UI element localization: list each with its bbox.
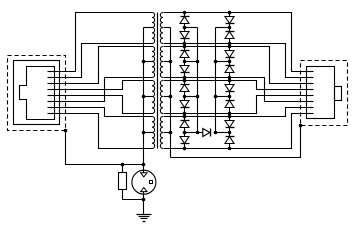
left jack pin 8 contact xyxy=(48,113,55,115)
diode VD9 (column 2, cathode down) xyxy=(225,13,235,28)
arrester gas-filled square mark xyxy=(150,181,153,184)
wire left pin 3 to primary terminal y=46.4 xyxy=(55,47,153,84)
column 1 mids bus wire xyxy=(197,28,199,133)
col1 bus junction dot xyxy=(196,131,200,135)
column 1 inter-pair link xyxy=(184,114,186,117)
column 2 junction dot at rail y=113.6 xyxy=(228,112,232,116)
column 2 junction dot at rail y=77.2 xyxy=(228,76,232,80)
wire secondary terminal y=46.4 to right pin 3 xyxy=(164,47,314,84)
arrester F1 top lead xyxy=(143,165,145,173)
column 1 junction dot at rail y=116.7 xyxy=(183,115,187,119)
T1 secondary winding 4 upper half xyxy=(160,117,163,133)
column 2 junction dot at rail y=116.7 xyxy=(228,115,232,119)
T1 primary winding 4 center tap stub xyxy=(144,132,153,134)
left jack pin 2 contact xyxy=(48,77,55,79)
column 1 junction dot at rail y=80.3 xyxy=(183,79,187,83)
secondary tap bus junction dot xyxy=(169,60,173,64)
column 2 pair 1 midpoint dot xyxy=(228,26,232,30)
T1 primary winding 4 upper half xyxy=(152,117,155,133)
right jack pin 6 contact xyxy=(307,101,314,103)
T1 secondary winding 1 upper half xyxy=(160,13,163,28)
right jack pin 3 contact xyxy=(307,83,314,85)
left jack pin 6 contact xyxy=(48,101,55,103)
column 2 pair 3 midpoint dot xyxy=(228,95,232,99)
diode VD12 (column 2, cathode up) xyxy=(225,62,235,78)
secondary center-tap bus wire xyxy=(170,28,172,158)
left connector body outer rectangle xyxy=(14,61,60,125)
left jack pin 3 contact xyxy=(48,83,55,85)
diode VD8 (column 1, cathode down) xyxy=(180,133,190,149)
left jack pin 5 contact xyxy=(48,95,55,97)
T1 primary winding 2 center tap stub xyxy=(144,61,153,63)
column 1 junction dot at rail y=148.6 xyxy=(183,147,187,151)
wire secondary terminal y=77.2 to right pin 6 xyxy=(164,78,314,102)
secondary tap bus junction dot xyxy=(169,95,173,99)
T1 primary winding 3 lower half xyxy=(152,97,155,114)
right jack pin 2 contact xyxy=(307,77,314,79)
wire secondary terminal y=116.7 to right pin 7 xyxy=(164,108,314,117)
column 2 junction dot at rail y=12.4 xyxy=(228,11,232,15)
column 1 inter-pair link xyxy=(184,78,186,81)
column 2 junction dot at rail y=43.3 xyxy=(228,42,232,46)
right jack pin 1 contact xyxy=(307,71,314,73)
column 2 junction dot at rail y=46.4 xyxy=(228,45,232,49)
diode VD4 (column 1, cathode down) xyxy=(180,62,190,78)
diode VD7 (column 1, cathode up) xyxy=(180,117,190,133)
wire left pin 7 to primary terminal y=116.7 xyxy=(55,108,153,117)
column 1 pair 1 midpoint dot xyxy=(183,26,187,30)
wire secondary terminal y=80.3 to right pin 4 xyxy=(164,81,314,90)
column 2 midpoint wire y=61.5 xyxy=(216,61,230,63)
diode VD11 (column 2, cathode down) xyxy=(225,47,235,62)
wire col1 bus to steering diode xyxy=(198,132,203,134)
resistor R1 top lead xyxy=(122,165,124,173)
col2 bus junction dot xyxy=(214,60,218,64)
secondary tap bus junction dot xyxy=(169,131,173,135)
diode VD1 (column 1, cathode up) xyxy=(180,13,190,28)
T1 secondary winding 3 upper half xyxy=(160,81,163,97)
primary tap bus junction dot xyxy=(142,131,146,135)
wire left pin 1 to primary terminal y=12.4 xyxy=(55,13,153,72)
column 2 pair 2 midpoint dot xyxy=(228,60,232,64)
left jack pin 4 contact xyxy=(48,89,55,91)
diode VD2 (column 1, cathode down) xyxy=(180,28,190,44)
col2 bus junction dot xyxy=(214,131,218,135)
column 2 junction dot at rail y=80.3 xyxy=(228,79,232,83)
T1 secondary winding 2 lower half xyxy=(160,62,163,78)
wire left pin 5 to primary terminal y=113.6 xyxy=(55,96,153,114)
T1 secondary winding 4 center tap stub xyxy=(164,132,171,134)
resistor R1 xyxy=(119,173,127,190)
column 1 midpoint wire y=96.5 xyxy=(185,96,198,98)
primary center-tap bus wire xyxy=(143,28,145,165)
T1 primary winding 1 lower half xyxy=(152,28,155,44)
column 1 pair 3 midpoint dot xyxy=(183,95,187,99)
column 2 inter-pair link xyxy=(229,78,231,81)
column 1 junction dot at rail y=77.2 xyxy=(183,76,187,80)
column 2 pair 4 midpoint dot xyxy=(228,131,232,135)
column 1 junction dot at rail y=113.6 xyxy=(183,112,187,116)
wire left pin 4 to primary terminal y=80.3 xyxy=(55,81,153,90)
wire left pin 2 to primary terminal y=43.3 xyxy=(55,44,153,78)
T1 secondary winding 2 center tap stub xyxy=(164,61,171,63)
diode VD14 (column 2, cathode up) xyxy=(225,97,235,114)
left connector shield (dashed screen box) XS1 xyxy=(8,56,66,131)
resistor R1 bottom lead xyxy=(123,190,144,200)
T1 secondary winding 2 upper half xyxy=(160,47,163,62)
right jack pin 5 contact xyxy=(307,95,314,97)
T1 secondary winding 4 lower half xyxy=(160,133,163,149)
T1 primary winding 2 lower half xyxy=(152,62,155,78)
wire left pin 6 to primary terminal y=77.2 xyxy=(55,78,153,102)
wire secondary terminal y=43.3 to right pin 2 xyxy=(164,44,314,78)
right shield junction dot xyxy=(299,124,303,128)
right RJ45 jack body xyxy=(307,67,335,119)
diode VD5 (column 1, cathode up) xyxy=(180,81,190,97)
ground-net junction dot (resistor) xyxy=(121,163,125,167)
wire secondary terminal y=113.6 to right pin 5 xyxy=(164,96,314,114)
T1 primary winding 2 upper half xyxy=(152,47,155,62)
column 2 junction dot at rail y=148.6 xyxy=(228,147,232,151)
column 2 midpoint wire y=96.5 xyxy=(216,96,230,98)
column 1 midpoint wire y=132.5 xyxy=(185,132,198,134)
wire left pin 8 to primary terminal y=148.6 xyxy=(55,114,153,149)
left jack pin 7 contact xyxy=(48,107,55,109)
steering diode VD17 (anode left) xyxy=(203,129,211,137)
column 1 pair 2 midpoint dot xyxy=(183,60,187,64)
column 2 mids bus wire xyxy=(215,28,217,133)
T1 primary winding 3 center tap stub xyxy=(144,96,153,98)
earth ground symbol xyxy=(137,215,152,222)
primary tap bus junction dot xyxy=(142,95,146,99)
T1 secondary winding 3 lower half xyxy=(160,97,163,114)
diode VD6 (column 1, cathode down) xyxy=(180,97,190,114)
ground-net junction dot (arrester) xyxy=(142,163,146,167)
T1 secondary winding 1 center tap stub xyxy=(164,27,171,29)
T1 secondary winding 3 center tap stub xyxy=(164,96,171,98)
earth lead xyxy=(143,200,145,215)
left shield junction dot xyxy=(64,129,68,133)
left RJ45 jack with key notch xyxy=(20,67,55,120)
wire secondary terminal y=148.6 to right pin 8 xyxy=(164,114,314,149)
T1 primary winding 1 upper half xyxy=(152,13,155,28)
column 1 pair 4 midpoint dot xyxy=(183,131,187,135)
left jack pin 1 contact xyxy=(48,71,55,73)
diode VD3 (column 1, cathode up) xyxy=(180,47,190,62)
column 1 junction dot at rail y=12.4 xyxy=(183,11,187,15)
column 1 junction dot at rail y=46.4 xyxy=(183,45,187,49)
right jack pin 8 contact xyxy=(307,113,314,115)
T1 primary winding 4 lower half xyxy=(152,133,155,149)
arrester lower electrode (triangle up) xyxy=(141,188,147,192)
right jack pin 4 contact xyxy=(307,89,314,91)
col2 bus junction dot xyxy=(214,95,218,99)
right connector shield (dashed screen box) XS2 xyxy=(301,61,348,126)
bottom junction dot xyxy=(142,198,146,202)
column 1 midpoint wire y=61.5 xyxy=(185,61,198,63)
arrester upper electrode (triangle down) xyxy=(141,173,147,177)
diode VD16 (column 2, cathode up) xyxy=(225,133,235,149)
T1 primary winding 3 upper half xyxy=(152,81,155,97)
right jack pin 7 contact xyxy=(307,107,314,109)
diode VD15 (column 2, cathode down) xyxy=(225,117,235,133)
secondary taps net wire to right shield xyxy=(171,126,301,158)
right jack key tab xyxy=(335,87,342,101)
wire secondary terminal y=12.4 to right pin 1 xyxy=(164,13,314,72)
column 1 midpoint wire y=27.5 xyxy=(185,27,198,29)
column 1 junction dot at rail y=43.3 xyxy=(183,42,187,46)
left shield to ground-net wire xyxy=(66,131,144,165)
column 1 inter-pair link xyxy=(184,44,186,47)
col1 bus junction dot xyxy=(196,95,200,99)
T1 secondary winding 1 lower half xyxy=(160,28,163,44)
column 2 inter-pair link xyxy=(229,44,231,47)
column 2 midpoint wire y=27.5 xyxy=(216,27,230,29)
arrester bottom lead xyxy=(143,192,145,200)
col1 bus junction dot xyxy=(196,60,200,64)
primary tap bus junction dot xyxy=(142,60,146,64)
column 2 inter-pair link xyxy=(229,114,231,117)
diode VD10 (column 2, cathode up) xyxy=(225,28,235,44)
transformer T1 core xyxy=(157,13,159,149)
T1 primary winding 1 center tap stub xyxy=(144,27,153,29)
column 2 midpoint wire y=132.5 xyxy=(216,132,230,134)
gas discharge arrester F1 envelope xyxy=(132,170,156,194)
diode VD13 (column 2, cathode down) xyxy=(225,81,235,97)
